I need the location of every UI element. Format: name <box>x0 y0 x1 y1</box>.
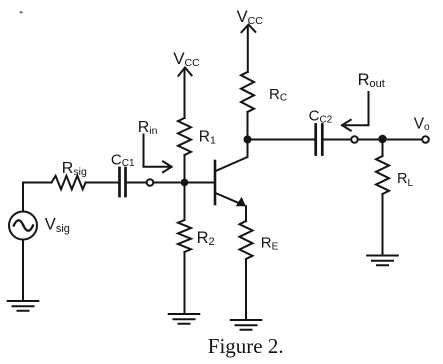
svg-text:R2: R2 <box>197 229 215 248</box>
wire CC1 to base <box>127 182 216 184</box>
arrow Rout <box>342 92 369 131</box>
emitter arrowhead <box>236 197 246 206</box>
wire to Vo <box>358 139 422 141</box>
capacitor C_C1 <box>120 168 126 196</box>
wire Vsig bottom <box>22 240 24 302</box>
wire input main horizontal <box>23 182 119 184</box>
arrow Rin <box>144 135 172 173</box>
transistor collector <box>216 143 248 171</box>
arrow Vcc R1 <box>178 68 191 119</box>
terminal circle Vo <box>422 136 429 143</box>
wire Vsig vertical top <box>22 183 24 212</box>
source Vsig <box>9 212 37 240</box>
wire RE to ground <box>245 259 247 320</box>
wire RL to ground <box>382 194 384 256</box>
capacitor C_C2 <box>316 125 323 155</box>
svg-text:R1: R1 <box>199 129 216 147</box>
svg-text:RL: RL <box>397 171 413 189</box>
wire RL top <box>382 140 384 157</box>
svg-text:Rout: Rout <box>358 71 385 90</box>
svg-text:CC1: CC1 <box>111 151 135 169</box>
svg-text:Vsig: Vsig <box>45 216 70 235</box>
resistor R1 <box>178 118 191 155</box>
node RL dot <box>378 135 386 143</box>
wire CC2 to circle <box>323 139 351 141</box>
wire RC to node <box>247 112 249 140</box>
resistor RE <box>240 221 253 259</box>
arrow Vcc RC <box>242 25 256 73</box>
wire node to R2 <box>184 183 186 221</box>
terminal circle after CC1 <box>147 179 154 186</box>
wire collector to CC2 <box>248 139 315 141</box>
ground RE <box>231 320 262 330</box>
node base dot <box>181 179 189 187</box>
scan speck <box>20 11 23 13</box>
wire R2 to ground <box>184 252 186 314</box>
ground R2 <box>169 314 200 324</box>
transistor Q1 bar <box>214 161 217 204</box>
svg-text:Vo: Vo <box>414 115 430 133</box>
svg-text:Rin: Rin <box>138 119 158 137</box>
ground Vsig <box>8 301 39 311</box>
svg-text:RC: RC <box>269 86 287 104</box>
resistor R2 <box>178 220 191 252</box>
resistor RC <box>241 72 254 112</box>
terminal circle Rout <box>351 136 358 143</box>
svg-text:VCC: VCC <box>237 8 264 27</box>
resistor Rsig <box>52 176 86 190</box>
svg-text:Rsig: Rsig <box>62 160 87 178</box>
resistor RL <box>376 156 389 194</box>
svg-text:Figure 2.: Figure 2. <box>208 334 284 358</box>
svg-text:CC2: CC2 <box>309 108 333 126</box>
wire R1 to node <box>184 155 186 183</box>
svg-text:VCC: VCC <box>173 49 200 69</box>
svg-text:RE: RE <box>261 235 279 253</box>
transistor emitter <box>216 193 247 221</box>
ground RL <box>367 256 398 266</box>
node collector dot <box>244 136 252 144</box>
